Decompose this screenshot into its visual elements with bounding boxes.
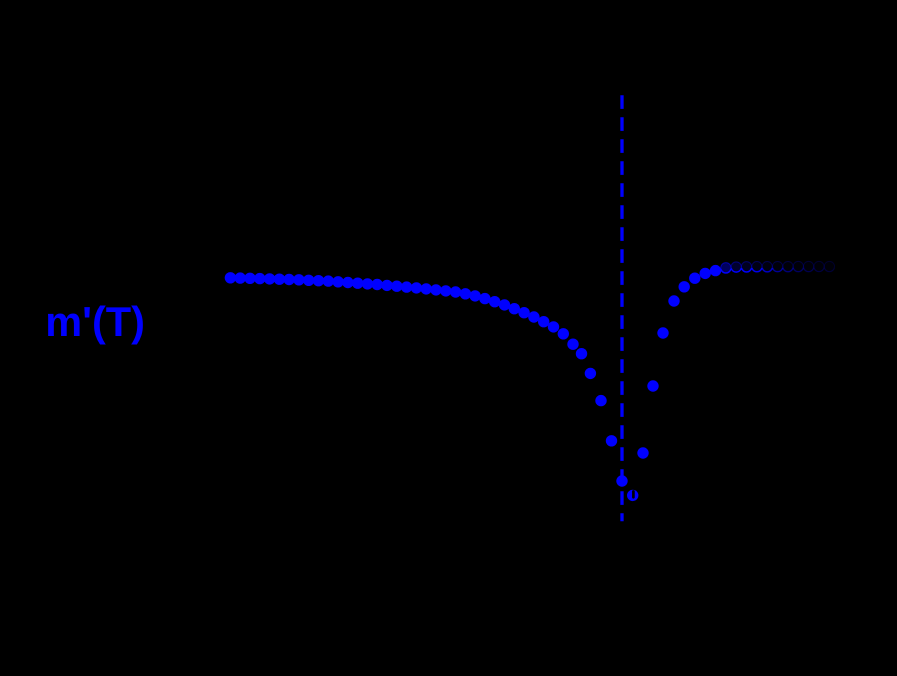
svg-text:m'(T): m'(T) xyxy=(45,298,145,345)
notch on minimum data point xyxy=(632,490,635,499)
dashed vertical line marking Tc xyxy=(620,95,623,521)
scatter series m'(T) data points xyxy=(225,261,835,501)
